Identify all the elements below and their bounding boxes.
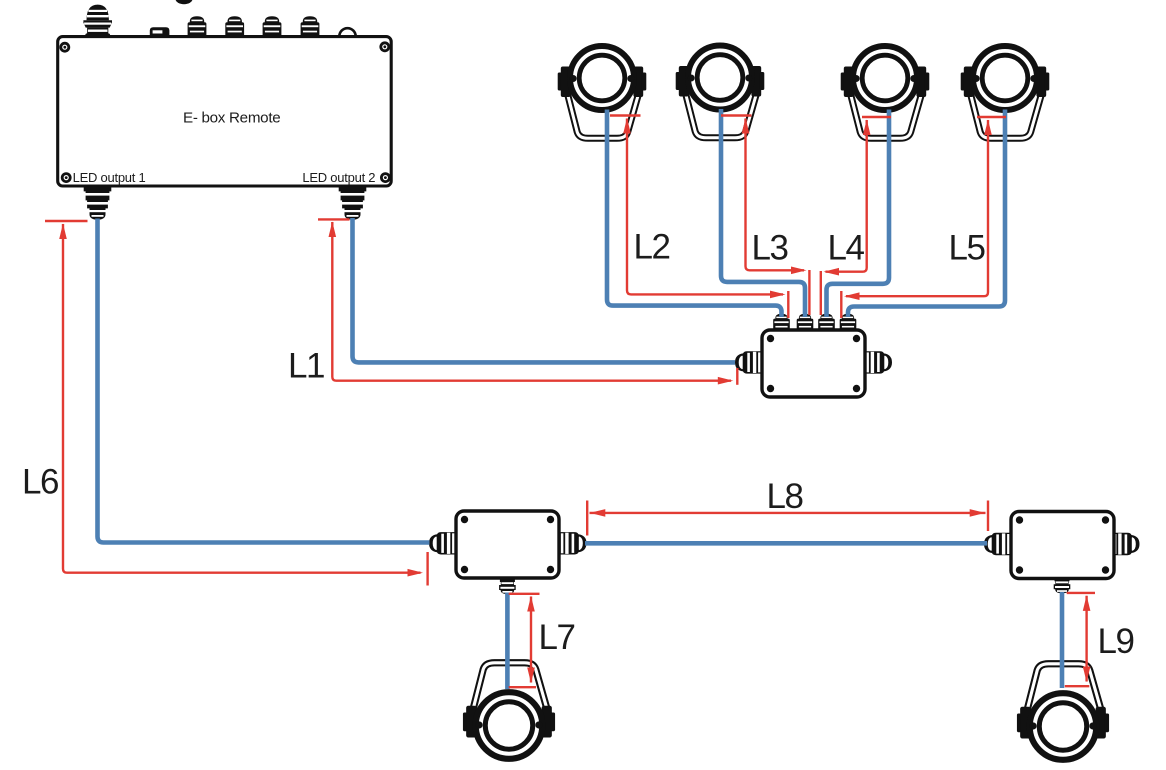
spotlight SP2 [676, 46, 765, 138]
dim L5 tick at SP4 [977, 116, 1006, 118]
dim L7 tick bottom [509, 686, 536, 688]
JB2 bottom gland [499, 579, 516, 594]
wire SP1 to JB1 gland1 [607, 110, 782, 318]
screw top-left [59, 42, 70, 53]
dim L6 arrows [59, 224, 67, 240]
dim L2 tick at JB1 [787, 291, 789, 318]
screw bottom-right [380, 172, 391, 183]
dim L7 line [530, 597, 532, 683]
svg-text:L6: L6 [22, 463, 58, 502]
dim L9 tick bottom [1065, 685, 1090, 687]
svg-text:E- box Remote: E- box Remote [183, 110, 280, 127]
dim L9 line [1085, 596, 1087, 682]
JB1 right gland [864, 351, 893, 373]
dim L8 line [590, 512, 986, 514]
dim L1 tick at output2 [318, 218, 350, 220]
svg-text:LED output 1: LED output 1 [73, 170, 146, 185]
svg-text:L7: L7 [539, 618, 575, 657]
svg-text:L1: L1 [288, 347, 324, 386]
E-box top gland 2 [225, 16, 244, 36]
dim L8 tick left [586, 501, 588, 536]
dim L5 line [846, 120, 988, 296]
svg-text:L8: L8 [767, 477, 803, 516]
dim L4 line [826, 120, 867, 272]
dim L6 tick at JB2 [426, 552, 428, 586]
spotlight SP1 [558, 46, 647, 138]
spotlight SP4 [961, 46, 1050, 138]
dim L7 tick top [509, 593, 540, 595]
screw bottom-left [61, 172, 72, 183]
spotlight SP3 [841, 46, 930, 138]
JB3 bottom gland [1054, 578, 1071, 593]
wire LED output2 to JB1 [353, 218, 736, 362]
dim L4 tick at JB1 [820, 271, 822, 315]
dim L6 tick at output1 [45, 220, 88, 222]
dim L2 line [627, 119, 783, 295]
E-box body [58, 37, 392, 186]
dim L9 arrows [1083, 595, 1091, 611]
cut-off letter fragment top edge [175, 0, 192, 4]
JB1 top gland 2 [797, 314, 814, 331]
dim L9 tick top [1067, 592, 1095, 594]
dim L3 tick at SP2 [721, 114, 752, 116]
JB1 left gland [735, 351, 764, 373]
wire SP2 to JB1 gland2 [721, 109, 805, 317]
JB1 body [762, 330, 865, 397]
spotlight SP6 (below JB3, flipped) [1017, 664, 1109, 760]
JB2 right gland [558, 532, 587, 554]
E-box top gland 1 [188, 16, 207, 36]
dim L8 tick right [987, 501, 989, 532]
wire JB2 to SP5 [505, 593, 510, 690]
dim L5 arrows [984, 120, 992, 136]
LED output 1 gland [84, 187, 112, 220]
svg-text:LED output 2: LED output 2 [302, 170, 375, 185]
svg-text:L3: L3 [752, 229, 788, 268]
screw top-right [379, 41, 390, 52]
wire JB2 to JB3 [585, 541, 987, 546]
JB1 top gland 3 [818, 314, 835, 331]
dim L3 arrows [742, 118, 750, 134]
dim L2 tick at SP1 [610, 114, 641, 116]
svg-text:L9: L9 [1098, 622, 1134, 661]
LED output 2 gland [339, 187, 367, 220]
svg-text:L2: L2 [634, 228, 670, 267]
E-box top gland 3 [263, 16, 282, 36]
E-box top dome button [339, 28, 355, 36]
E-box top gland 4 [301, 16, 320, 36]
dim L7 arrows [527, 596, 535, 612]
E-box top flat connector [150, 27, 170, 36]
E-box top big cable gland [83, 5, 112, 37]
dim L1 arrows [329, 222, 337, 238]
dim L1 tick at JB1 [736, 368, 738, 385]
wire LED output1 to JB2 [98, 219, 430, 543]
dim L8 arrows [590, 509, 606, 517]
JB1 top gland 4 [840, 314, 857, 331]
dim L6 line [63, 224, 421, 573]
dim L4 tick at SP3 [862, 116, 891, 118]
dim L4 arrows [863, 120, 871, 136]
wire JB3 to SP6 [1060, 592, 1065, 688]
dim L2 arrows [623, 118, 631, 134]
dim L1 line [332, 222, 731, 381]
JB3 body [1011, 512, 1114, 579]
wire SP3 to JB1 gland3 [827, 110, 890, 318]
JB1 top gland 1 [773, 314, 790, 331]
dim L5 tick at JB1 [840, 291, 842, 318]
spotlight SP5 (below JB2, flipped) [463, 663, 555, 759]
JB2 left gland [429, 532, 458, 554]
dim L3 tick at JB1 [808, 270, 810, 315]
JB3 right gland [1111, 533, 1140, 555]
svg-text:L5: L5 [949, 229, 985, 268]
wire SP4 to JB1 gland4 [848, 110, 1005, 318]
dim L3 line [746, 119, 805, 271]
svg-text:L4: L4 [828, 229, 865, 268]
JB2 body [456, 511, 559, 578]
JB3 left gland [984, 533, 1013, 555]
